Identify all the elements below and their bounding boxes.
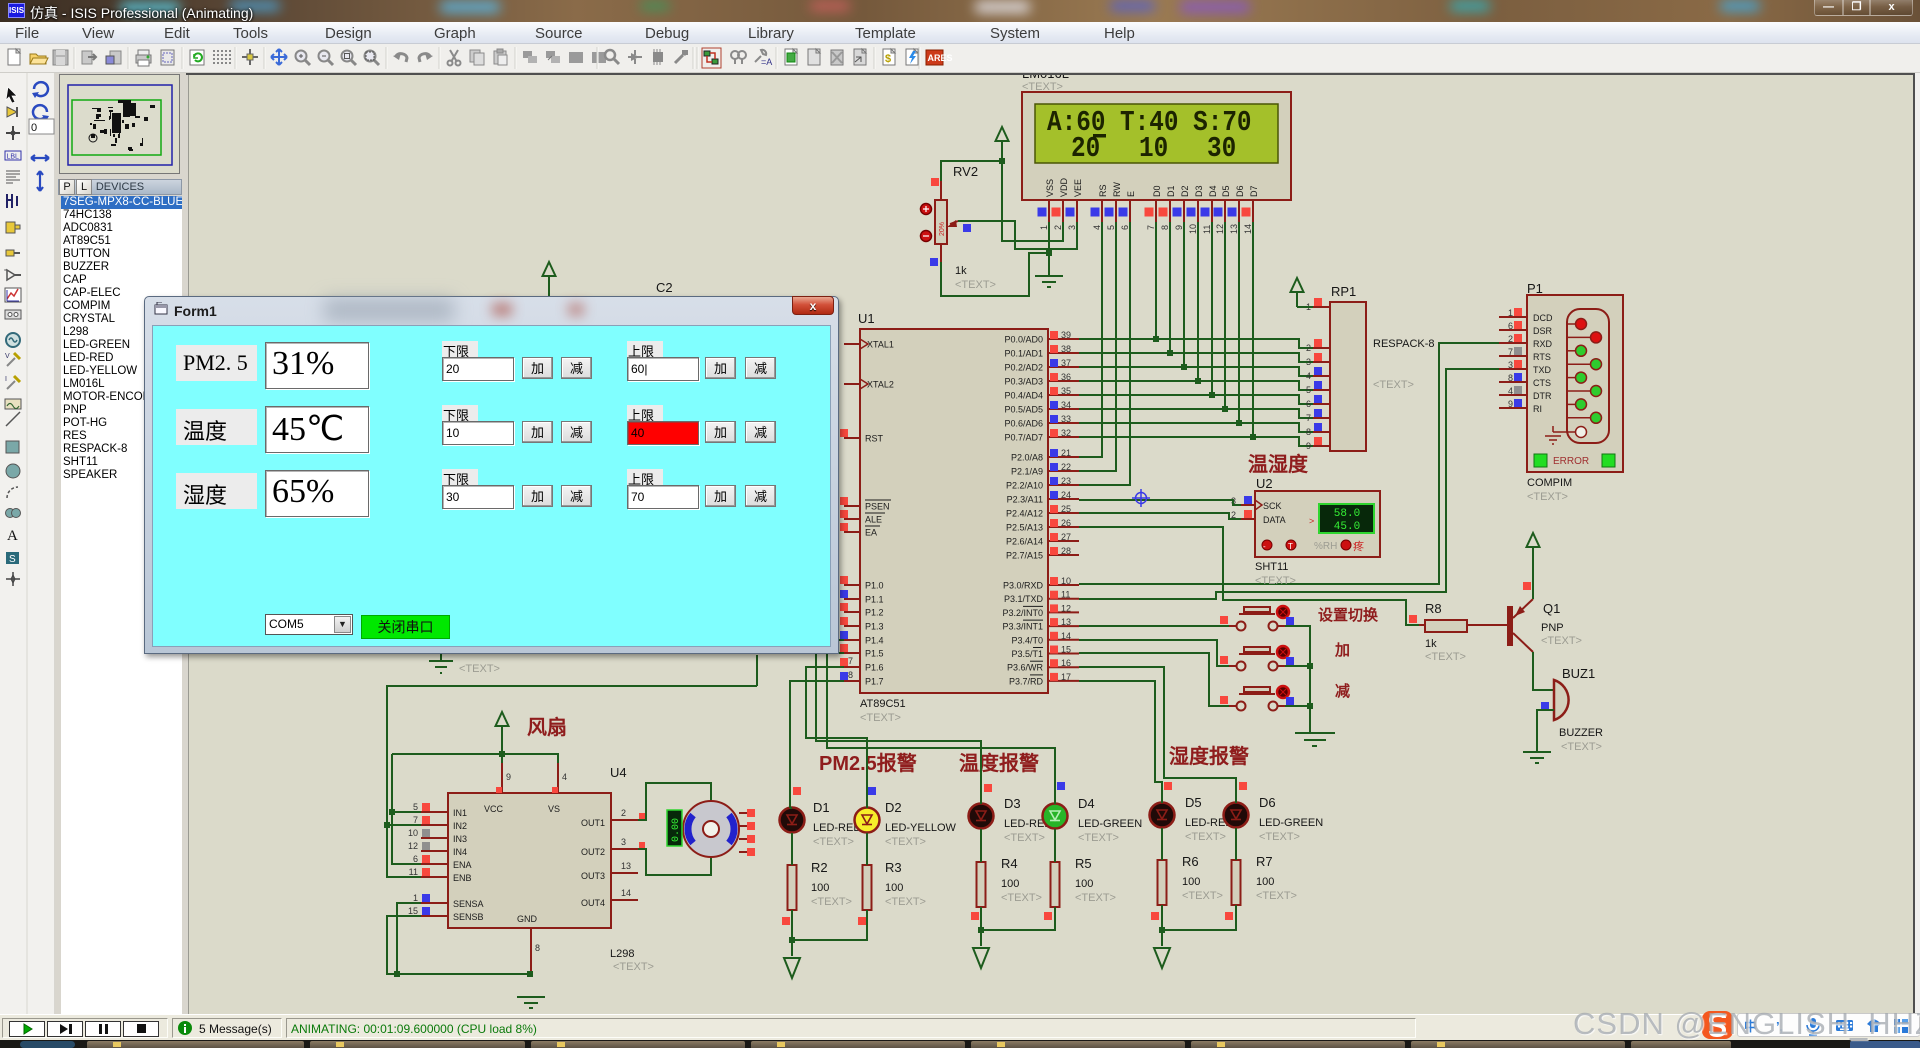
svg-text:11: 11 [1061,590,1070,600]
U4 pin 3 (OUT2) [581,837,638,857]
P1 COMPIM labels [1527,477,1572,503]
wire left rail to IN1/ENA [392,754,421,864]
svg-text:0.00: 0.00 [671,818,682,842]
svg-text:OUT2: OUT2 [581,847,605,857]
svg-text:8: 8 [1508,373,1513,383]
svg-text:P0.7/AD7: P0.7/AD7 [1004,433,1043,443]
wire U1 P3.4 to button2 [1079,640,1229,666]
svg-text:D5: D5 [1221,185,1231,197]
junction node LCD D3 column [1195,378,1201,384]
svg-text:15: 15 [408,906,418,916]
svg-text:疼: 疼 [1353,539,1364,553]
svg-text:P2.0/A8: P2.0/A8 [1011,453,1043,463]
overview: view area (green) [72,100,161,155]
U4 pin 2 (OUT1) [581,808,638,828]
toolbar: copy [470,50,484,65]
U1 pin 10 (P3.0/RXD) [1003,576,1079,591]
svg-text:VCC: VCC [484,804,504,814]
toolbar: import section [82,51,96,64]
svg-text:=: = [4,268,7,274]
U4 pin 15 (SENSB) [408,906,484,922]
toolbar: electrical rule check [906,49,918,65]
menu bar [0,22,1920,44]
U4 pin 7 (IN2) [413,815,467,831]
svg-text:P0.2/AD2: P0.2/AD2 [1004,363,1043,373]
svg-text:P0.6/AD6: P0.6/AD6 [1004,419,1043,429]
palette icon: component mode [7,107,17,117]
svg-text:R7: R7 [1256,854,1273,869]
U4 pin 14 (OUT4) [581,888,638,908]
svg-text:1: 1 [1039,225,1049,230]
wire VSS to ground [1048,222,1050,253]
toolbar: origin [242,49,258,65]
svg-text:-: - [1263,542,1266,551]
RP1 pin 6 [1306,395,1330,409]
U1 pin 36 (P0.3/AD3) [1004,372,1079,387]
svg-text:PNP: PNP [1541,622,1564,634]
svg-text:P2.1/A9: P2.1/A9 [1011,467,1043,477]
svg-text:8: 8 [1306,427,1311,437]
svg-text:OUT1: OUT1 [581,818,605,828]
svg-text:<TEXT>: <TEXT> [1561,741,1602,753]
rotation angle box [29,119,54,134]
svg-text:设置切换: 设置切换 [1318,606,1379,624]
LCD pin 13 (D6) [1228,185,1246,234]
svg-text:13: 13 [1229,224,1239,234]
watermark [1573,1006,1920,1042]
U1 pin 34 (P0.5/AD5) [1004,400,1079,415]
svg-text:10: 10 [408,828,418,838]
RP1 pin 1 [1306,298,1330,312]
svg-text:7: 7 [848,656,853,666]
svg-text:I: I [5,376,7,383]
palette icon: 2D circle [6,464,20,478]
svg-text:9: 9 [1508,399,1513,409]
svg-text:<TEXT>: <TEXT> [1255,575,1296,587]
wire U1 P1.6 to D2 [806,667,867,808]
toolbar: wire autorouter [702,48,721,68]
svg-text:14: 14 [1243,224,1253,234]
svg-text:6: 6 [1306,399,1311,409]
wire SENSA to ground rail [397,903,421,974]
svg-text:<TEXT>: <TEXT> [811,896,852,908]
palette icon: 2D path [6,509,21,518]
palette icon: selection pointer [6,87,17,103]
svg-text:P3.0/RXD: P3.0/RXD [1003,581,1044,591]
svg-text:TXD: TXD [1533,365,1552,375]
svg-text:P1.0: P1.0 [865,581,884,591]
svg-text:6: 6 [1120,225,1130,230]
svg-text:D3: D3 [1194,185,1204,197]
wire D5 cathode to R6 [1161,828,1163,860]
push button SW-inc (加) [1220,646,1294,671]
svg-text:7: 7 [413,815,418,825]
wire button common rail [1285,626,1310,733]
U1 pin 35 (P0.4/AD4) [1004,386,1079,401]
svg-text:3: 3 [1508,360,1513,370]
toolbar: new design [8,49,20,65]
toolbar: block move [546,51,560,63]
svg-text:AT89C51: AT89C51 [860,698,906,710]
toolbar: pan [271,49,287,65]
svg-text:D7: D7 [1249,185,1259,197]
wire U1 P0.0 to RP1 pin 2 and LCD data [1079,339,1313,348]
toolbar: toggle grid [213,50,231,64]
side panel [55,73,188,1014]
svg-text:EA: EA [865,528,877,538]
U1 pin 26 (P2.5/A13) [1006,518,1079,533]
svg-text:ALE: ALE [865,515,882,525]
svg-text:D6: D6 [1259,795,1276,810]
svg-text:RTS: RTS [1533,352,1551,362]
palette icon: marker mode [6,572,20,586]
svg-text:<TEXT>: <TEXT> [1256,890,1297,902]
svg-text:100: 100 [811,882,829,894]
palette icon: 2D line [6,412,20,426]
wire LCD D7 vertical [1252,222,1254,437]
svg-text:1: 1 [413,893,418,903]
wire LCD D1 vertical [1169,222,1171,353]
svg-text:SENSB: SENSB [453,912,484,922]
svg-text:VSS: VSS [1045,179,1055,197]
svg-text:DCD: DCD [1533,313,1553,323]
svg-text:IN1: IN1 [453,808,467,818]
U1 pin P1.6 [840,656,884,673]
svg-text:P0.4/AD4: P0.4/AD4 [1004,391,1043,401]
wire D3 cathode to R4 [980,829,982,862]
resistor R6 100 [1158,854,1223,905]
toolbar: netlist to ARES [926,50,953,65]
resistor R2 100 [788,860,852,910]
toolbar: make device [628,50,642,64]
svg-text:16: 16 [1061,658,1071,668]
RP1 pin 4 [1306,367,1330,381]
wire power to RV2 top [941,161,1002,181]
svg-text:P2.7/A15: P2.7/A15 [1006,551,1043,561]
junction node R4R5 [978,927,984,933]
toolbar: pick device [605,50,619,64]
U1 pin 11 (P3.1/TXD) [1004,590,1079,605]
P1 pin 3 (TXD) [1499,360,1587,383]
svg-text:3: 3 [621,837,626,847]
palette icon: subcircuit mode [6,222,20,233]
svg-text:30: 30 [1207,133,1236,165]
svg-text:L298: L298 [610,948,634,960]
U4 pin 6 (ENA) [413,854,472,870]
svg-text:4: 4 [562,772,567,782]
svg-text:<TEXT>: <TEXT> [459,663,500,675]
svg-text:P2.3/A11: P2.3/A11 [1007,495,1043,505]
RV2 increment button [921,204,932,215]
U1 pin 33 (P0.6/AD6) [1004,414,1079,429]
svg-text:28: 28 [1061,546,1071,556]
wire U1 P0.1 to RP1 pin 3 and LCD data [1079,353,1313,362]
svg-text:<TEXT>: <TEXT> [1425,651,1466,663]
LCD display LCD1 LM016L [1022,66,1291,200]
RP1 pin 8 [1306,423,1330,437]
U1 pin 16 (P3.6/WR) [1007,658,1079,673]
svg-text:COMPIM: COMPIM [1527,477,1572,489]
svg-text:8: 8 [848,670,853,680]
svg-text:D2: D2 [885,800,902,815]
svg-text:8: 8 [535,943,540,953]
motor speed display [667,810,682,846]
junction node R6R7 [1159,927,1165,933]
resistor R3 100 [863,860,926,910]
wire COMPIM TXD to U1 P3.1 [1079,369,1499,599]
palette icon: device pins mode [4,268,21,280]
svg-text:VEE: VEE [1073,179,1083,197]
toolbar: property assignment [755,50,772,67]
palette icon: 2D box [6,441,19,453]
U4 pin 1 (SENSA) [413,893,484,909]
wire COMPIM RXD to U1 P3.0 [1079,343,1499,584]
RP1 pin 9 [1306,437,1330,451]
wire U1 P3.5 to button3 [1079,653,1229,706]
P1 ERROR indicator squares [1534,454,1615,467]
svg-text:100: 100 [1182,876,1200,888]
svg-text:$: $ [885,53,891,65]
svg-text:<TEXT>: <TEXT> [1185,831,1226,843]
svg-text:34: 34 [1061,400,1071,410]
toolbar: zoom area [365,51,380,66]
toolbar: zoom all [342,51,357,66]
wire U1 P1.4 to D3 [816,640,981,804]
svg-text:100: 100 [885,882,903,894]
svg-text:<TEXT>: <TEXT> [1075,892,1116,904]
svg-text:U4: U4 [610,765,627,780]
svg-text:DATA: DATA [1263,515,1286,525]
svg-text:ENA: ENA [453,860,472,870]
svg-text:D1: D1 [813,800,830,815]
sogou: mic icon [1807,1018,1819,1035]
toolbar: cut [448,50,461,66]
wire LCD D6 vertical [1238,222,1240,423]
svg-text:温度报警: 温度报警 [959,751,1039,775]
toolbar: refresh display [190,50,204,65]
ground symbol below U4 [517,997,545,1008]
junction node IN2 [384,822,390,828]
U1 pin ALE [840,510,885,525]
toolbar: bill of materials [883,49,895,65]
svg-text:<TEXT>: <TEXT> [1004,832,1045,844]
wire U1 P0.6 to RP1 pin 8 and LCD data [1079,423,1313,432]
palette icon: 2D symbol [6,552,19,565]
toolbar [0,44,1920,73]
svg-text:<TEXT>: <TEXT> [1527,491,1568,503]
ground arrow below R4 [973,948,989,968]
U1 pin 25 (P2.4/A12) [1006,504,1079,519]
svg-text:U1: U1 [858,311,875,326]
svg-text:7: 7 [1508,347,1513,357]
wire U1 P2.4 to U2 DATA [1079,513,1241,519]
U1 pin 27 (P2.6/A14) [1006,532,1079,547]
svg-text:XTAL2: XTAL2 [867,380,894,390]
wire U1 P2.3 to U2 SCK [1079,500,1241,505]
status bar [0,1014,1920,1040]
toolbar: design explorer [785,49,797,65]
svg-text:OUT4: OUT4 [581,898,605,908]
RP1 pin 5 [1306,381,1330,395]
wire Q1 collector to buzzer [1533,652,1554,690]
svg-text:0: 0 [31,122,37,134]
svg-text:OUT3: OUT3 [581,871,605,881]
toolbar: decompose [675,50,688,63]
svg-text:湿度报警: 湿度报警 [1169,744,1249,768]
U1 pin P1.2 [840,603,884,618]
svg-text:<TEXT>: <TEXT> [1001,892,1042,904]
U2 pin 3 SCK [1231,496,1255,506]
junction node LCD D6 column [1236,420,1242,426]
svg-text:RXD: RXD [1533,339,1553,349]
LCD pin 6 (E) [1119,191,1137,230]
svg-text:D4: D4 [1208,185,1218,197]
U1 pin 23 (P2.2/A10) [1006,476,1079,491]
power symbol above Form1 window [543,262,556,296]
motor encoder pins [739,809,755,856]
ground arrow below R2 [784,958,800,978]
svg-text:P1.1: P1.1 [865,595,884,605]
svg-text:37: 37 [1061,358,1071,368]
svg-text:SHT11: SHT11 [1255,561,1288,573]
svg-text:DSR: DSR [1533,326,1553,336]
svg-text:13: 13 [1061,617,1071,627]
svg-text:PSEN: PSEN [865,502,890,512]
svg-text:R6: R6 [1182,854,1199,869]
U1 pin XTAL1 [844,339,894,350]
motor-encoder (fan motor) [683,801,739,857]
P1 pin 1 (DCD) [1499,308,1587,330]
palette icon: tape recorder mode [5,310,21,319]
svg-text:4: 4 [1508,386,1513,396]
potentiometer RV2 [935,164,996,291]
svg-text:加: 加 [1334,642,1350,659]
LCD pin 14 (D7) [1242,185,1260,234]
svg-text:24: 24 [1061,490,1071,500]
svg-text:温湿度: 温湿度 [1248,452,1309,476]
toolbar: redo [419,53,433,62]
svg-text:<TEXT>: <TEXT> [1541,635,1582,647]
toolbar: zoom out [319,51,334,66]
svg-text:22: 22 [1061,462,1071,472]
sogou: skin icon [1867,1019,1881,1032]
svg-text:V: V [5,353,10,360]
toolbar: undo [393,53,407,62]
wire power down to VDD [1002,161,1063,241]
P1 pin 9 (RI) [1499,399,1602,423]
svg-text:100: 100 [1256,876,1274,888]
svg-text:6: 6 [1508,321,1513,331]
palette icon: 2D arc [7,487,18,498]
wire U1 P0.2 to RP1 pin 4 and LCD data [1079,367,1313,376]
junction node button rail [1307,663,1313,669]
svg-text:D2: D2 [1180,185,1190,197]
junction node LCD D0 column [1153,336,1159,342]
palette icon: 2D text [7,528,18,544]
power symbol above U4 [496,712,509,726]
wire U1 P3.3 to button1 [1079,625,1229,627]
junction node R2R3 [789,937,795,943]
svg-text:23: 23 [1061,476,1071,486]
svg-text:VDD: VDD [1059,177,1069,197]
svg-text:D5: D5 [1185,795,1202,810]
svg-text:26: 26 [1061,518,1071,528]
origin marker (blue crosshair) [1132,489,1150,507]
svg-text:D0: D0 [1152,185,1162,197]
svg-text:LED-YELLOW: LED-YELLOW [885,822,957,834]
resistor R7 100 [1232,854,1297,905]
resistor R5 100 [1051,856,1116,907]
buzzer BUZ1 [1541,666,1603,753]
palette icon: terminals mode [6,250,20,256]
LED D2 (LED-YELLOW) [855,800,957,848]
svg-text:RW: RW [1112,182,1122,197]
toolbar: search tag [731,51,746,64]
svg-text:P2.5/A13: P2.5/A13 [1006,523,1043,533]
overview: mini schematic blobs [89,100,155,151]
toolbar: open design [30,54,48,64]
svg-text:2: 2 [1508,334,1513,344]
mirror horizontal icon [31,155,49,161]
svg-text:风扇: 风扇 [527,715,567,739]
resistor bottom pin squares [782,912,1233,925]
svg-text:9: 9 [1174,225,1184,230]
P1 pin 6 (DSR) [1499,321,1602,343]
svg-text:38: 38 [1061,344,1071,354]
power symbol VCC above RV2 area [996,127,1009,162]
svg-text:=A: =A [761,57,772,67]
sensor U2 SHT11 body [1255,476,1380,587]
U1 pin 17 (P3.7/RD) [1009,672,1079,687]
svg-text:XTAL1: XTAL1 [867,340,894,350]
toolbar: remove sheet [831,50,843,65]
U1 pin 28 (P2.7/A15) [1006,546,1079,561]
LED D1 (LED-RED) [780,800,862,848]
svg-text:P0.5/AD5: P0.5/AD5 [1004,405,1043,415]
ground symbol near U4 top area [429,653,500,675]
svg-text:R3: R3 [885,860,902,875]
svg-text:D6: D6 [1235,185,1245,197]
ground symbol below buzzer [1523,752,1551,763]
svg-text:CTS: CTS [1533,378,1551,388]
toolbar: block copy [523,51,537,63]
svg-text:P2.2/A10: P2.2/A10 [1006,481,1043,491]
svg-text:P1.3: P1.3 [865,622,884,632]
U1 pin P1.0 [840,576,884,591]
wire LCD E to U1 P2.2 [1079,222,1130,485]
push button SW-dec (减) [1220,686,1294,711]
svg-text:17: 17 [1061,672,1071,682]
U4 pin 10 (IN3) [408,828,467,844]
RP1 pin 7 [1306,409,1330,423]
svg-text:7: 7 [1146,225,1156,230]
svg-text:100: 100 [1001,878,1019,890]
svg-text:5: 5 [413,802,418,812]
wire power to Q1 emitter [1532,547,1534,599]
U4 pin 9 (VCC) [484,763,511,814]
svg-text:R2: R2 [811,860,828,875]
svg-text:13: 13 [621,861,631,871]
svg-text:11: 11 [1202,225,1212,234]
svg-text:D3: D3 [1004,796,1021,811]
junction node VCC [499,751,505,757]
microcontroller U1 AT89C51 body [858,311,1048,724]
svg-text:2: 2 [1306,343,1311,353]
svg-text:15: 15 [1061,645,1071,655]
U4 pin 13 (OUT3) [581,861,638,881]
LED D6 (LED-GREEN) [1224,795,1324,843]
svg-text:T: T [1288,542,1293,551]
